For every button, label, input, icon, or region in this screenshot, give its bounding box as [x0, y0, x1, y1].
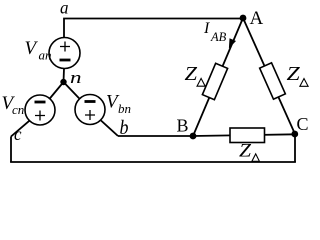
wire n to V_cn — [50, 82, 64, 99]
impedance Z (A-C branch) — [260, 63, 286, 99]
wire top a-A — [64, 19, 243, 39]
svg-text:bn: bn — [118, 101, 131, 116]
node A — [240, 15, 247, 22]
source V_an — [49, 38, 80, 69]
svg-text:Z: Z — [185, 63, 198, 85]
V_an minus — [60, 59, 71, 62]
source V_cn — [25, 95, 55, 125]
V_bn minus — [85, 100, 96, 103]
wire A-B — [193, 18, 243, 136]
source V_bn — [75, 95, 105, 125]
wire bottom — [10, 161, 296, 163]
node n — [60, 79, 66, 85]
wire c down left side — [10, 137, 12, 163]
svg-text:Z: Z — [287, 63, 301, 85]
V_cn minus — [35, 101, 46, 104]
svg-text:a: a — [60, 0, 69, 18]
impedance Z (B-C branch) — [230, 128, 265, 143]
svg-text:cn: cn — [12, 102, 24, 117]
wire V_cn to c corner — [11, 121, 29, 137]
svg-text:Z: Z — [239, 141, 252, 161]
svg-text:an: an — [39, 48, 52, 63]
V_an plus — [60, 42, 70, 52]
svg-text:V: V — [25, 38, 39, 59]
svg-text:I: I — [203, 20, 210, 37]
node C — [291, 131, 298, 138]
wire A-C — [243, 18, 295, 134]
svg-text:A: A — [250, 8, 264, 29]
current arrow I_AB — [229, 38, 236, 48]
impedance Z (A-B branch) — [202, 63, 227, 99]
node B — [190, 133, 197, 140]
wire b to B — [118, 135, 193, 137]
wire B-C — [193, 134, 295, 136]
wire V_an to n — [63, 69, 66, 83]
V_bn plus — [85, 110, 95, 120]
wire n to V_bn — [64, 82, 80, 99]
svg-text:n: n — [70, 68, 82, 87]
svg-text:AB: AB — [210, 30, 227, 44]
wire right side up to C — [294, 134, 296, 162]
V_cn plus — [35, 111, 45, 121]
wire V_bn to b corner — [101, 121, 118, 137]
svg-text:B: B — [177, 116, 189, 136]
svg-text:C: C — [297, 114, 309, 134]
svg-text:c: c — [14, 124, 22, 144]
